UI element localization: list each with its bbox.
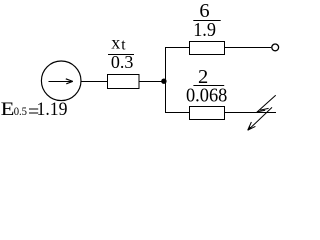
svg-text:0.3: 0.3 <box>111 52 133 72</box>
svg-text:0.5: 0.5 <box>14 104 27 118</box>
svg-text:E: E <box>1 99 15 120</box>
svg-text:0.068: 0.068 <box>186 84 227 106</box>
svg-text:x: x <box>111 33 120 53</box>
svg-text:1.9: 1.9 <box>193 19 216 41</box>
svg-text:1.19: 1.19 <box>37 99 68 120</box>
